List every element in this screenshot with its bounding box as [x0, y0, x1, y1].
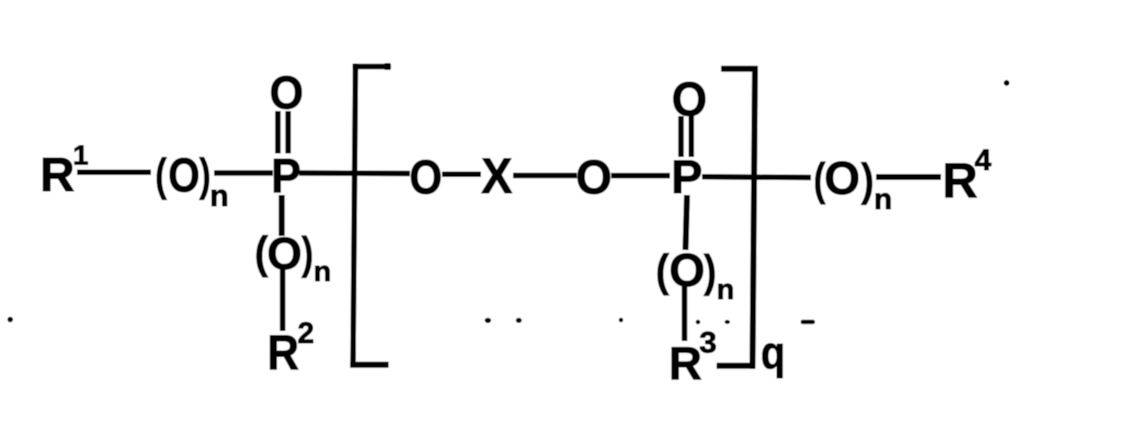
svg-text:n: n — [210, 178, 229, 213]
svg-text:X: X — [481, 149, 512, 205]
svg-text:4: 4 — [975, 144, 992, 177]
svg-text:): ) — [301, 227, 314, 278]
svg-text:2: 2 — [298, 317, 315, 350]
svg-text:n: n — [313, 256, 331, 288]
svg-text:O: O — [576, 151, 612, 205]
svg-text:P: P — [271, 149, 301, 203]
svg-text:R: R — [942, 155, 977, 209]
wire (O)n down to R3 — [682, 286, 688, 341]
svg-text:O: O — [168, 149, 200, 202]
double bond P2=O — [681, 116, 691, 157]
wire P1 through bracket to O — [299, 170, 410, 176]
svg-text:R: R — [267, 325, 299, 380]
wire P1 down — [279, 195, 285, 236]
svg-text:): ) — [703, 246, 716, 297]
wire O to P2 — [611, 173, 670, 179]
node (O)n right — [813, 152, 892, 216]
right bracket — [717, 66, 758, 369]
wire P2 through bracket to (O)n — [702, 174, 811, 180]
svg-text:O: O — [669, 244, 705, 296]
svg-text:n: n — [717, 274, 735, 306]
svg-text:q: q — [761, 328, 785, 379]
speck — [7, 317, 13, 323]
svg-text:(: ( — [155, 148, 167, 200]
svg-text:3: 3 — [699, 325, 717, 359]
wire (O)n to P1 — [214, 170, 273, 176]
wire X to O — [513, 173, 577, 179]
double bond P1=O — [278, 111, 288, 154]
svg-text:): ) — [861, 155, 875, 206]
svg-text:n: n — [874, 183, 892, 216]
wire R1 to (O)n — [77, 170, 151, 176]
svg-text:O: O — [824, 152, 860, 204]
svg-text:1: 1 — [73, 139, 89, 170]
left bracket — [350, 64, 391, 368]
node R4 — [942, 144, 991, 209]
speck — [619, 318, 623, 323]
speck — [485, 318, 491, 323]
speck — [696, 320, 701, 325]
svg-text:R: R — [669, 337, 702, 389]
svg-text:P: P — [671, 150, 702, 203]
wire O to X — [442, 172, 481, 178]
speck — [1004, 80, 1010, 86]
speck — [725, 320, 730, 324]
wire (O)n down to R2 — [280, 268, 286, 331]
node (O)n left — [155, 148, 229, 213]
svg-text:O: O — [672, 72, 707, 125]
node R3 — [669, 325, 717, 389]
svg-text:R: R — [40, 149, 75, 202]
svg-text:(: ( — [655, 246, 670, 296]
node R1 — [40, 139, 89, 202]
left bracket top end blob — [384, 63, 391, 70]
node R2 — [267, 317, 314, 380]
wire (O)n to R4 — [876, 174, 941, 180]
svg-text:O: O — [269, 66, 303, 118]
speck — [516, 318, 522, 323]
node (O)n below P2 — [655, 244, 734, 306]
svg-text:O: O — [409, 150, 442, 204]
svg-text:O: O — [267, 228, 302, 279]
wire P2 down — [686, 195, 688, 250]
node (O)n below P1 — [254, 227, 331, 288]
speck dash — [801, 320, 815, 324]
